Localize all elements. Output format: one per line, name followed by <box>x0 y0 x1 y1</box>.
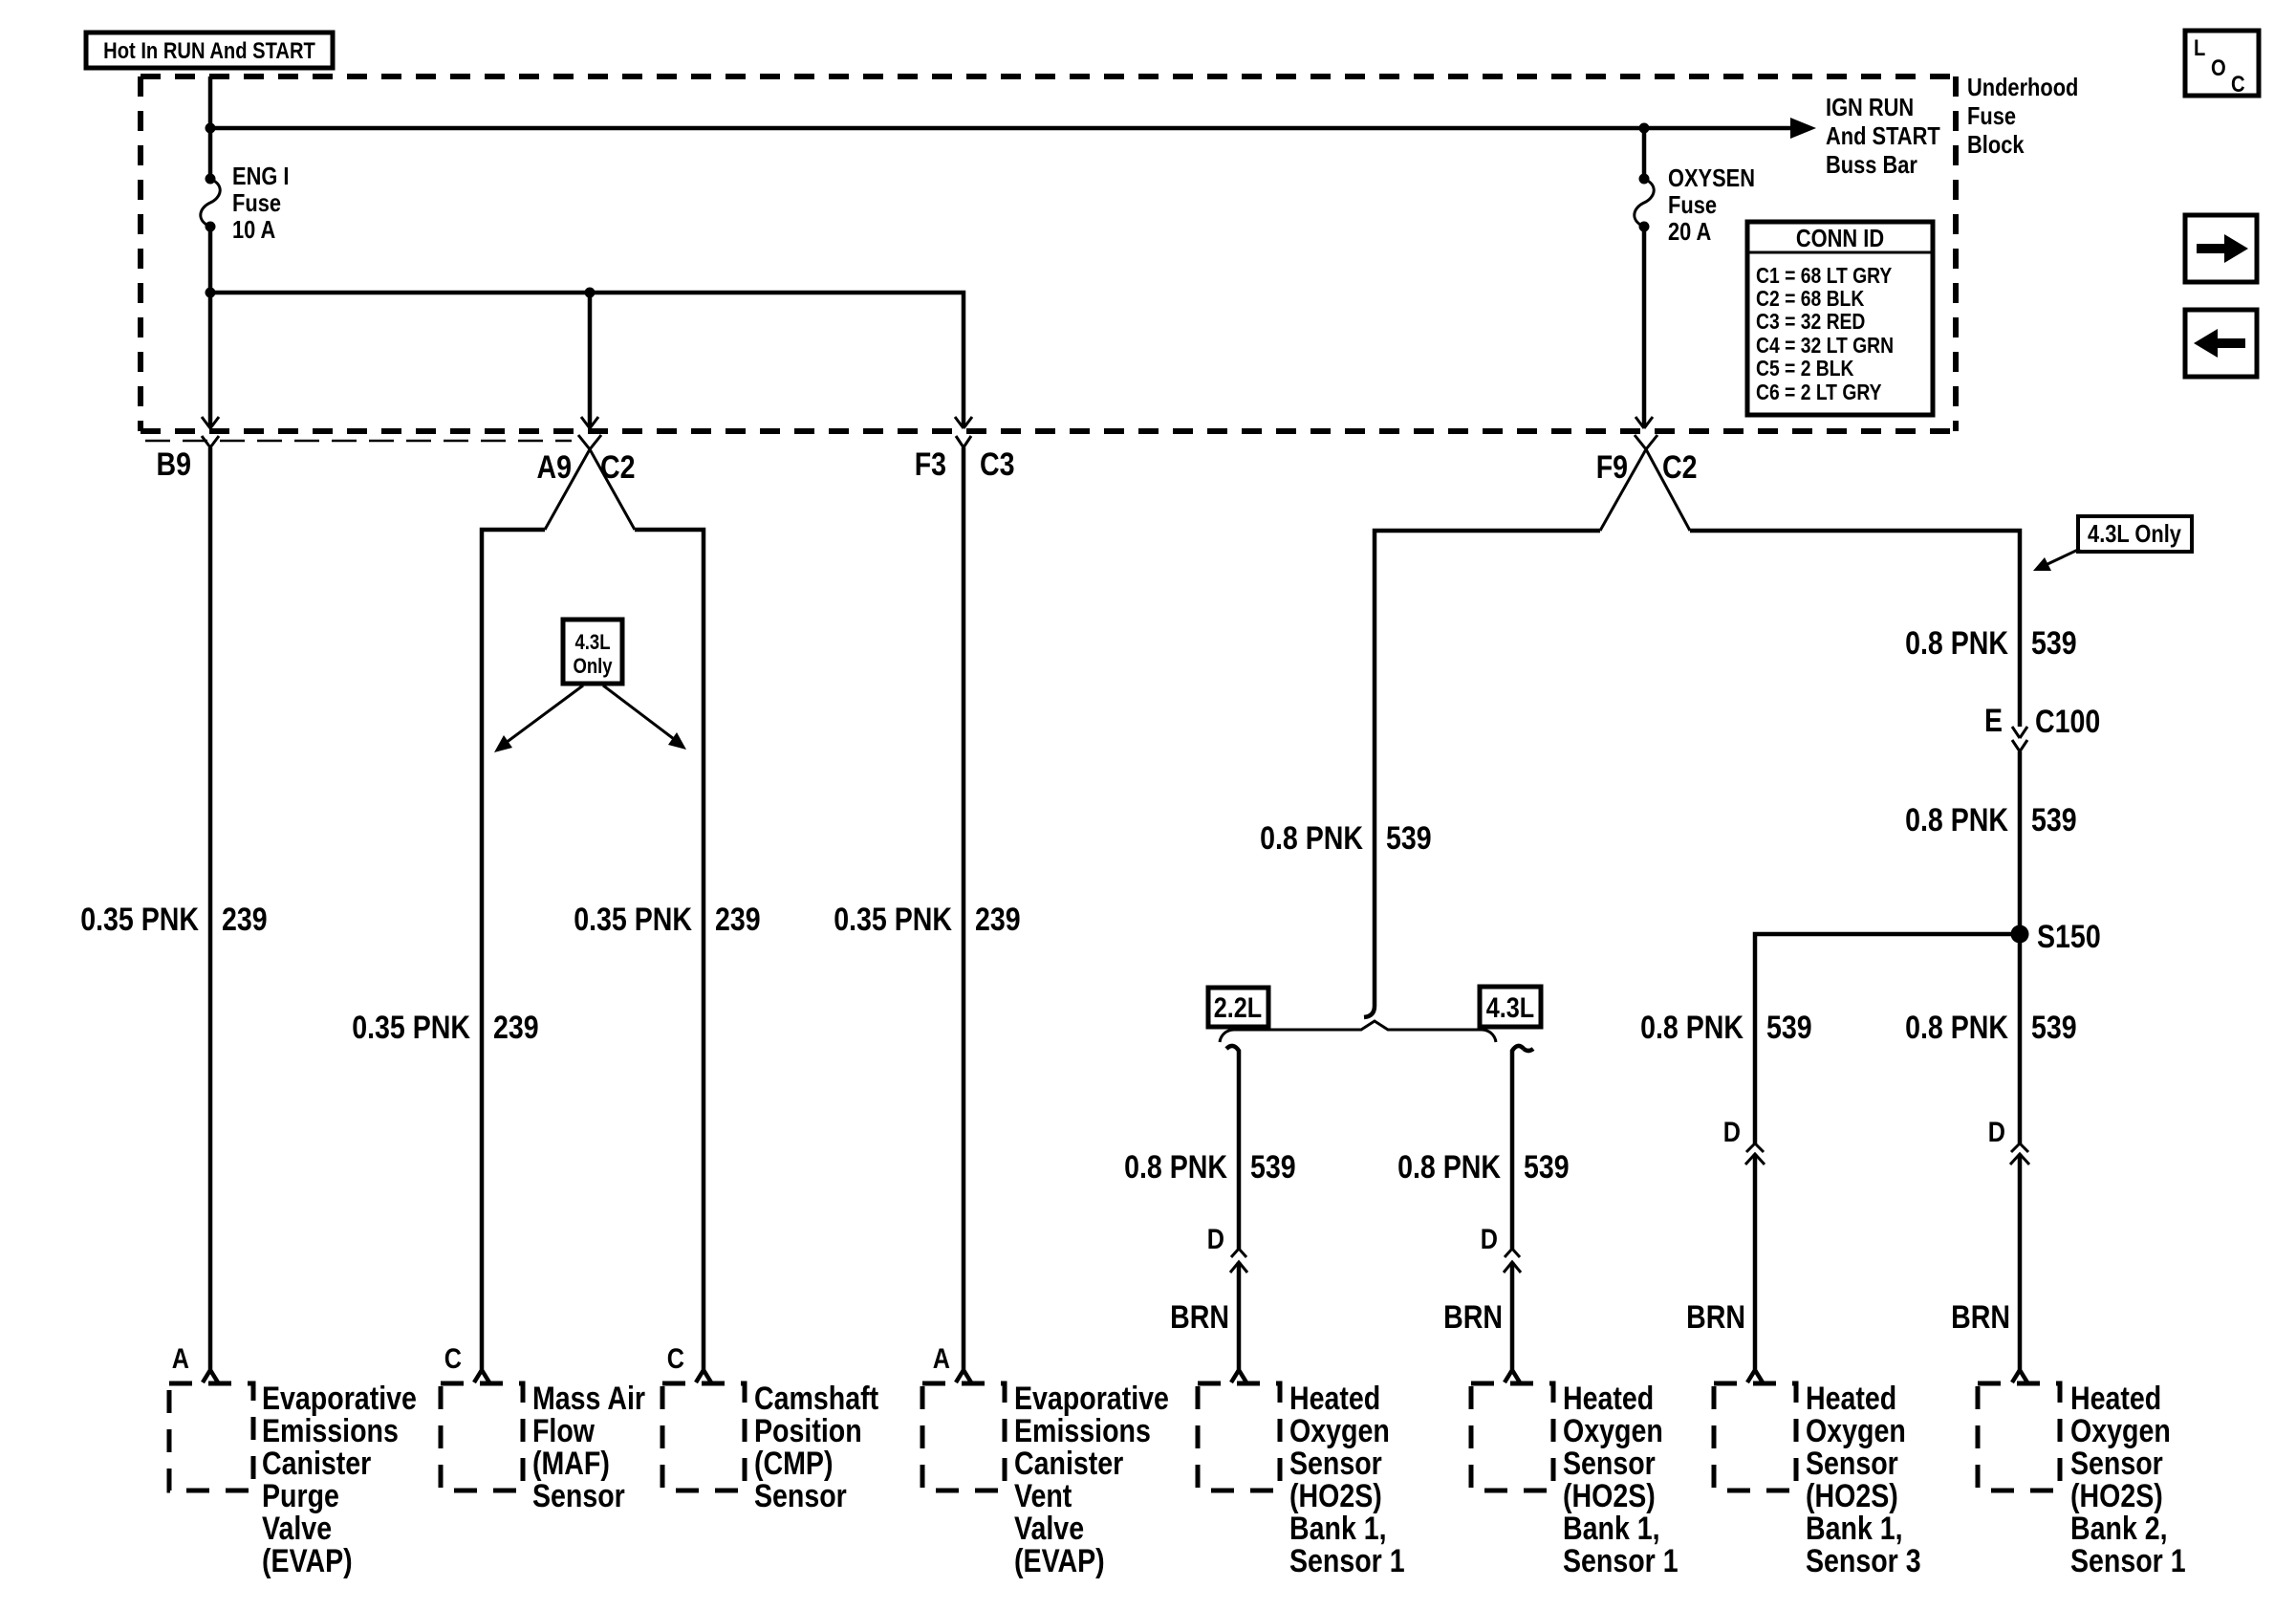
svg-text:539: 539 <box>2031 802 2077 838</box>
wire right branch 4.3L main <box>1690 531 2020 727</box>
wire BRN B2S1 <box>2012 1154 2027 1382</box>
svg-text:Only: Only <box>573 654 613 678</box>
label HO2S B1S1 4.3L <box>1563 1381 1679 1579</box>
svg-text:0.8 PNK: 0.8 PNK <box>1905 625 2008 662</box>
svg-text:Mass Air: Mass Air <box>532 1381 645 1417</box>
svg-text:ENG I: ENG I <box>232 162 290 190</box>
Underhood Fuse Block dashed outline <box>141 76 1956 431</box>
svg-text:F9: F9 <box>1596 449 1628 486</box>
svg-text:D: D <box>1481 1224 1498 1255</box>
svg-text:Underhood: Underhood <box>1967 73 2078 101</box>
svg-text:BRN: BRN <box>1951 1299 2010 1336</box>
svg-text:L: L <box>2194 35 2205 61</box>
nav arrow left box <box>2185 310 2257 377</box>
wire MAF branch <box>474 530 545 1382</box>
svg-text:(HO2S): (HO2S) <box>1806 1478 1898 1514</box>
label 0.8 PNK 539 (B2S1 wire) <box>1905 1010 2077 1046</box>
svg-text:CONN ID: CONN ID <box>1796 224 1884 252</box>
svg-text:Sensor: Sensor <box>754 1478 847 1514</box>
svg-text:(CMP): (CMP) <box>754 1446 834 1482</box>
label HO2S B1S1 2.2L <box>1289 1381 1405 1579</box>
label 0.35 PNK 239 (EVAP vent wire) <box>834 902 1020 938</box>
svg-text:(HO2S): (HO2S) <box>2070 1478 2163 1514</box>
svg-text:Vent: Vent <box>1014 1478 1072 1514</box>
svg-text:Heated: Heated <box>2070 1381 2161 1417</box>
label fuse ENG I 10 A <box>232 162 290 244</box>
label EVAP purge valve <box>262 1381 417 1579</box>
svg-text:C: C <box>2231 72 2245 98</box>
connector D (B2S1) <box>1988 1117 2029 1164</box>
brace engine split <box>1220 1021 1496 1042</box>
junction S150 <box>2011 919 2101 955</box>
svg-text:0.8 PNK: 0.8 PNK <box>1124 1149 1227 1186</box>
connector B9 <box>157 436 220 483</box>
svg-text:4.3L Only: 4.3L Only <box>2088 519 2181 548</box>
svg-text:539: 539 <box>1386 820 1432 857</box>
svg-text:0.8 PNK: 0.8 PNK <box>1260 820 1363 857</box>
svg-text:539: 539 <box>2031 1010 2077 1046</box>
label 4.3L <box>1480 987 1541 1027</box>
component EVAP vent valve box <box>922 1383 1005 1490</box>
svg-text:Camshaft: Camshaft <box>754 1381 878 1417</box>
wire HO2S B1S1 4.3L upper <box>1512 1046 1533 1249</box>
svg-text:Hot In RUN And START: Hot In RUN And START <box>103 38 315 64</box>
svg-text:Heated: Heated <box>1806 1381 1896 1417</box>
svg-text:0.8 PNK: 0.8 PNK <box>1397 1149 1501 1186</box>
svg-text:BRN: BRN <box>1443 1299 1503 1336</box>
svg-text:S150: S150 <box>2037 919 2101 955</box>
svg-text:D: D <box>1207 1224 1224 1255</box>
svg-text:C: C <box>444 1343 462 1375</box>
svg-text:0.35 PNK: 0.35 PNK <box>80 902 199 938</box>
svg-text:Sensor 3: Sensor 3 <box>1806 1543 1921 1579</box>
label box Hot In RUN And START <box>86 33 333 68</box>
svg-text:Bank 2,: Bank 2, <box>2070 1511 2168 1547</box>
nav arrow right box <box>2185 215 2257 282</box>
svg-text:Sensor: Sensor <box>1806 1446 1898 1482</box>
svg-text:10 A: 10 A <box>232 215 275 244</box>
LOC legend box <box>2185 31 2259 98</box>
connector F3/C3 <box>915 436 1015 483</box>
connector A9/C2 <box>537 435 636 530</box>
svg-text:(EVAP): (EVAP) <box>1014 1543 1105 1579</box>
svg-text:BRN: BRN <box>1686 1299 1745 1336</box>
label 0.8 PNK 539 (left branch) <box>1260 820 1432 857</box>
connector E C100 <box>1984 703 2100 751</box>
svg-text:Canister: Canister <box>262 1446 371 1482</box>
wire left branch to engine split <box>1364 531 1600 1017</box>
label 0.8 PNK 539 (right mid) <box>1905 802 2077 838</box>
svg-text:C5 = 2 BLK: C5 = 2 BLK <box>1756 356 1854 381</box>
svg-text:BRN: BRN <box>1170 1299 1229 1336</box>
component EVAP purge valve box <box>169 1383 253 1490</box>
svg-text:Sensor 1: Sensor 1 <box>1563 1543 1679 1579</box>
CONN ID table <box>1747 222 1933 415</box>
svg-text:Valve: Valve <box>1014 1511 1084 1547</box>
svg-text:0.8 PNK: 0.8 PNK <box>1905 802 2008 838</box>
svg-text:Sensor: Sensor <box>1289 1446 1382 1482</box>
svg-text:C2: C2 <box>1662 449 1698 486</box>
svg-text:O: O <box>2211 55 2226 81</box>
svg-text:IGN RUN: IGN RUN <box>1826 93 1914 121</box>
svg-text:A: A <box>172 1343 189 1375</box>
component HO2S B2S1 box <box>1978 1383 2060 1490</box>
label IGN RUN And START Buss Bar <box>1826 93 1940 179</box>
svg-text:Valve: Valve <box>262 1511 332 1547</box>
svg-text:20 A: 20 A <box>1668 217 1711 246</box>
svg-text:2.2L: 2.2L <box>1214 992 1262 1024</box>
svg-text:C3: C3 <box>980 446 1015 483</box>
label 0.8 PNK 539 (right top) <box>1905 625 2077 662</box>
svg-text:C4 = 32 LT GRN: C4 = 32 LT GRN <box>1756 333 1894 358</box>
svg-text:(HO2S): (HO2S) <box>1563 1478 1656 1514</box>
label CMP sensor <box>754 1381 878 1514</box>
label 4.3L Only (right) with pointer <box>2033 516 2192 571</box>
svg-text:Oxygen: Oxygen <box>1806 1413 1906 1449</box>
wire CMP branch <box>635 530 711 1382</box>
fuse OXYSEN wire vertical <box>1635 128 1653 428</box>
component HO2S B1S3 box <box>1714 1383 1796 1490</box>
wire below C100 <box>2018 751 2023 1143</box>
label HO2S B1S3 <box>1806 1381 1921 1579</box>
junction B9 wire tap <box>206 288 216 298</box>
svg-text:(MAF): (MAF) <box>532 1446 610 1482</box>
label HO2S B2S1 <box>2070 1381 2186 1579</box>
label 0.8 PNK 539 (B1S1 2.2L) <box>1124 1149 1296 1186</box>
svg-text:C3 = 32 RED: C3 = 32 RED <box>1756 309 1865 334</box>
svg-text:Bank 1,: Bank 1, <box>1563 1511 1660 1547</box>
svg-text:Flow: Flow <box>532 1413 595 1449</box>
svg-text:Sensor 1: Sensor 1 <box>1289 1543 1405 1579</box>
svg-text:539: 539 <box>1524 1149 1570 1186</box>
connector F9/C2 <box>1596 435 1698 531</box>
svg-text:0.35 PNK: 0.35 PNK <box>574 902 692 938</box>
svg-text:And START: And START <box>1826 121 1940 150</box>
wire BRN B1S1 4.3L <box>1505 1262 1520 1382</box>
svg-text:Bank 1,: Bank 1, <box>1806 1511 1903 1547</box>
fuse block inner boundary thin dashed <box>145 440 572 443</box>
svg-text:A: A <box>933 1343 950 1375</box>
svg-text:Sensor 1: Sensor 1 <box>2070 1543 2186 1579</box>
svg-text:Sensor: Sensor <box>2070 1446 2163 1482</box>
junction A9 tap <box>585 288 596 298</box>
svg-text:C100: C100 <box>2035 704 2100 740</box>
svg-text:239: 239 <box>715 902 761 938</box>
svg-text:539: 539 <box>1766 1010 1812 1046</box>
junction top feed <box>206 123 216 134</box>
svg-text:A9: A9 <box>537 449 573 486</box>
svg-text:(EVAP): (EVAP) <box>262 1543 353 1579</box>
svg-text:Position: Position <box>754 1413 862 1449</box>
svg-text:C1 = 68 LT GRY: C1 = 68 LT GRY <box>1756 263 1892 288</box>
label 0.8 PNK 539 (B1S1 4.3L) <box>1397 1149 1570 1186</box>
svg-text:Evaporative: Evaporative <box>1014 1381 1169 1417</box>
component MAF sensor box <box>441 1383 523 1490</box>
wire fused feed horizontal to F3 <box>210 293 972 428</box>
svg-text:C: C <box>667 1343 684 1375</box>
fuse OXYSEN <box>1635 174 1654 232</box>
svg-text:4.3L: 4.3L <box>1486 992 1534 1024</box>
svg-text:239: 239 <box>975 902 1021 938</box>
svg-text:4.3L: 4.3L <box>575 630 611 654</box>
svg-text:539: 539 <box>2031 625 2077 662</box>
svg-text:OXYSEN: OXYSEN <box>1668 163 1755 192</box>
svg-text:0.35 PNK: 0.35 PNK <box>834 902 952 938</box>
svg-text:C6 = 2 LT GRY: C6 = 2 LT GRY <box>1756 380 1882 404</box>
svg-text:Oxygen: Oxygen <box>2070 1413 2171 1449</box>
label Underhood Fuse Block <box>1967 73 2078 159</box>
svg-text:239: 239 <box>222 902 268 938</box>
svg-text:239: 239 <box>493 1010 539 1046</box>
svg-text:Purge: Purge <box>262 1478 339 1514</box>
label MAF sensor <box>532 1381 645 1514</box>
wire IGN RUN buss bar horizontal <box>210 118 1816 139</box>
svg-text:0.8 PNK: 0.8 PNK <box>1905 1010 2008 1046</box>
wire ENG I feed vertical <box>202 76 219 428</box>
wire BRN B1S3 <box>1747 1154 1763 1382</box>
svg-text:Sensor: Sensor <box>532 1478 625 1514</box>
svg-text:C2 = 68 BLK: C2 = 68 BLK <box>1756 286 1865 311</box>
wire A9 branch vertical <box>581 293 598 428</box>
svg-text:Evaporative: Evaporative <box>262 1381 417 1417</box>
svg-text:Oxygen: Oxygen <box>1289 1413 1390 1449</box>
svg-text:(HO2S): (HO2S) <box>1289 1478 1382 1514</box>
svg-text:Emissions: Emissions <box>262 1413 399 1449</box>
component HO2S B1S1 4.3L box <box>1471 1383 1553 1490</box>
svg-text:0.8 PNK: 0.8 PNK <box>1640 1010 1744 1046</box>
connector D (B1S3) <box>1723 1117 1765 1164</box>
svg-text:539: 539 <box>1250 1149 1296 1186</box>
svg-text:Sensor: Sensor <box>1563 1446 1656 1482</box>
svg-text:C2: C2 <box>600 449 636 486</box>
component CMP sensor box <box>662 1383 745 1490</box>
svg-text:Canister: Canister <box>1014 1446 1123 1482</box>
wire HO2S B1S1 2.2L upper <box>1226 1046 1239 1249</box>
svg-text:Fuse: Fuse <box>1967 101 2016 130</box>
label 0.8 PNK 539 (B1S3 wire) <box>1640 1010 1812 1046</box>
label 0.35 PNK 239 (CMP wire) <box>574 902 760 938</box>
connector D (B1S1 4.3L) <box>1481 1224 1521 1273</box>
svg-text:Emissions: Emissions <box>1014 1413 1151 1449</box>
svg-text:Heated: Heated <box>1563 1381 1654 1417</box>
svg-text:0.35 PNK: 0.35 PNK <box>352 1010 470 1046</box>
fuse ENG I <box>201 174 220 232</box>
label 0.35 PNK 239 (MAF wire) <box>352 1010 538 1046</box>
svg-text:Heated: Heated <box>1289 1381 1380 1417</box>
wire BRN B1S1 2.2L <box>1231 1262 1246 1382</box>
component HO2S B1S1 2.2L box <box>1198 1383 1280 1490</box>
label 0.35 PNK 239 (EVAP purge wire) <box>80 902 267 938</box>
svg-text:Fuse: Fuse <box>232 188 281 217</box>
label 2.2L <box>1208 988 1268 1027</box>
label fuse OXYSEN 20 A <box>1668 163 1755 246</box>
junction OXYSEN tap <box>1639 123 1650 134</box>
svg-text:D: D <box>1723 1117 1741 1148</box>
label 4.3L Only (engine option left) <box>494 620 686 752</box>
svg-text:E: E <box>1984 703 2003 739</box>
svg-text:D: D <box>1988 1117 2005 1148</box>
svg-text:B9: B9 <box>157 446 192 483</box>
svg-text:Oxygen: Oxygen <box>1563 1413 1663 1449</box>
connector D (B1S1 2.2L) <box>1207 1224 1247 1273</box>
svg-text:Bank 1,: Bank 1, <box>1289 1511 1387 1547</box>
wire branch HO2S B1S3 <box>1755 934 2020 1143</box>
wire EVAP vent vertical <box>956 447 971 1382</box>
label EVAP vent valve <box>1014 1381 1169 1579</box>
svg-text:F3: F3 <box>915 446 946 483</box>
svg-text:Buss Bar: Buss Bar <box>1826 150 1917 179</box>
svg-text:Block: Block <box>1967 130 2025 159</box>
wire EVAP purge vertical <box>203 447 218 1382</box>
svg-text:Fuse: Fuse <box>1668 190 1717 219</box>
